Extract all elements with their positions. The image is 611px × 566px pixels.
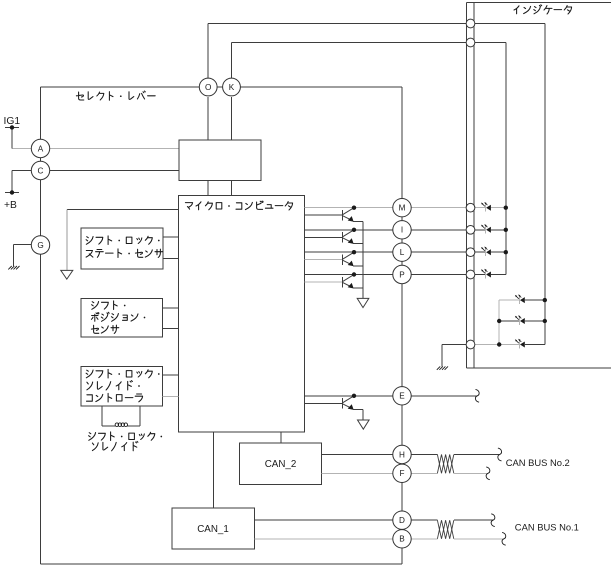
svg-text:O: O bbox=[205, 83, 211, 92]
svg-text:I: I bbox=[401, 226, 403, 235]
svg-text:+B: +B bbox=[4, 200, 17, 211]
svg-text:IG1: IG1 bbox=[4, 116, 21, 127]
svg-text:CAN_2: CAN_2 bbox=[265, 459, 297, 470]
svg-text:CAN BUS No.2: CAN BUS No.2 bbox=[506, 457, 570, 468]
svg-text:CAN_1: CAN_1 bbox=[197, 524, 229, 535]
svg-text:M: M bbox=[399, 204, 406, 213]
svg-text:G: G bbox=[37, 241, 43, 250]
svg-text:K: K bbox=[229, 83, 235, 92]
svg-text:P: P bbox=[399, 270, 405, 279]
svg-text:E: E bbox=[399, 392, 405, 401]
svg-text:L: L bbox=[400, 248, 405, 257]
svg-text:B: B bbox=[399, 535, 405, 544]
svg-text:CAN BUS No.1: CAN BUS No.1 bbox=[515, 522, 579, 533]
svg-text:C: C bbox=[38, 166, 44, 175]
svg-text:H: H bbox=[399, 450, 405, 459]
svg-text:A: A bbox=[38, 144, 44, 153]
svg-text:D: D bbox=[399, 516, 405, 525]
svg-text:F: F bbox=[399, 469, 404, 478]
